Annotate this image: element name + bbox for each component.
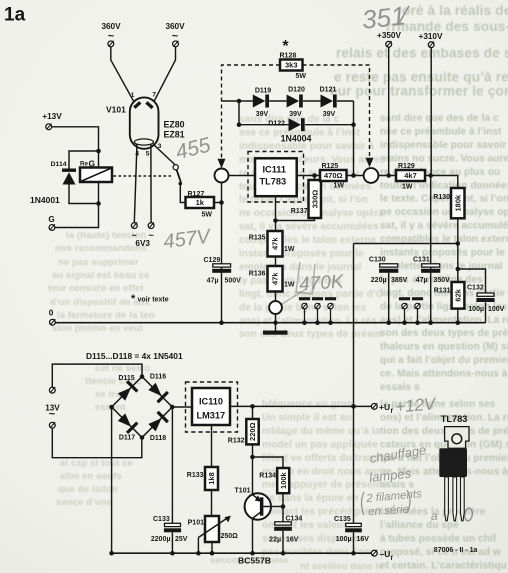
diode D118 (147, 411, 169, 442)
wire D122 row (239, 122, 356, 127)
node A regulator input (215, 169, 229, 183)
svg-text:D118: D118 (150, 435, 166, 442)
diode D117 (116, 412, 138, 441)
svg-text:100µ: 100µ (468, 306, 484, 313)
svg-text:G: G (48, 215, 54, 224)
svg-text:IC110: IC110 (199, 397, 223, 407)
wire IC110 output +Uf line (230, 404, 371, 409)
svg-text:e reste pas ensuite qu’à recof: e reste pas ensuite qu’à recoffre digne (334, 70, 508, 85)
svg-text:5W: 5W (202, 212, 213, 219)
svg-text:1: 1 (131, 92, 135, 99)
terminal +Uf (371, 402, 393, 415)
svg-text:ne occasion un analyse opéra: ne occasion un analyse opéra (380, 207, 508, 218)
divider resistor R135 47k 1W (249, 231, 295, 257)
svg-text:C133: C133 (153, 516, 170, 523)
svg-text:22µ: 22µ (269, 537, 281, 544)
svg-text:qui a fait l’objet du premier: qui a fait l’objet du premier (380, 355, 508, 366)
heater tap terminal 2 (312, 297, 323, 325)
wire bridge plus down to C133 (171, 407, 173, 523)
wire P101 bottom to rail (210, 542, 215, 556)
wire tube pin 5 to heater terminal (150, 145, 152, 223)
label 1N4001 (30, 195, 60, 205)
svg-text:thaleurs en question (M) si: thaleurs en question (M) si (380, 342, 508, 353)
svg-text:7: 7 (152, 91, 156, 98)
node B regulator output (364, 168, 379, 183)
svg-text:nos recommandons: nos recommandons (55, 243, 147, 254)
wire R137 bottom to divider (273, 218, 314, 223)
wire R137 top pin (314, 176, 316, 181)
op-amp/regulator IC111 TL783 (248, 152, 304, 203)
svg-text:100k: 100k (279, 471, 288, 489)
svg-text:D115: D115 (118, 375, 134, 382)
tube V101 EZ80/EZ81 rectifier (106, 91, 185, 157)
svg-text:250Ω: 250Ω (221, 533, 239, 540)
resistor R137 330ohm (291, 180, 321, 218)
svg-text:47k: 47k (271, 237, 280, 250)
svg-text:P101: P101 (188, 520, 204, 527)
capacitor C132 100u 100V (467, 285, 505, 314)
figure label 1a (4, 5, 26, 26)
svg-text:indispensable pour savoir à: indispensable pour savoir à (380, 140, 508, 151)
svg-text:R131: R131 (434, 288, 451, 295)
wire tube pin 4 to heater terminal (134, 145, 137, 223)
wire IC111 output to R125 (297, 173, 320, 178)
wire node C to 0 bus (273, 314, 278, 325)
svg-text:tre dans la épure en: tre dans la épure en (262, 493, 358, 504)
terminal 360V right (165, 22, 185, 47)
svg-text:al cap si tout ce: al cap si tout ce (60, 458, 133, 469)
svg-text:son des deux types de préam: son des deux types de préam (239, 329, 382, 340)
wire output node to R129 (378, 173, 396, 178)
svg-text:D119: D119 (255, 88, 271, 95)
terminal -Uf (371, 549, 393, 562)
resistor R127 1k 5W (186, 191, 215, 219)
svg-text:R132: R132 (228, 438, 245, 445)
wire C133 to rail (170, 532, 175, 555)
svg-text:R133: R133 (187, 472, 204, 479)
svg-text:IC111: IC111 (263, 165, 287, 175)
-Uf rail (110, 552, 371, 554)
svg-text:330Ω: 330Ω (310, 190, 319, 209)
capacitor C131 47u 350V (413, 256, 450, 284)
heater tap terminal 3 (325, 297, 336, 325)
ground symbol under node C (263, 323, 288, 335)
svg-text:Un simple il est au: Un simple il est au (262, 412, 352, 423)
svg-text:BC557B: BC557B (238, 556, 271, 566)
svg-text:C135: C135 (334, 516, 351, 523)
svg-text:instants proposés pour le: instants proposés pour le (380, 248, 505, 259)
svg-text:D117: D117 (119, 434, 135, 441)
wire R136 to node C (275, 292, 277, 302)
wire to diode D114 branch (69, 151, 99, 169)
svg-text:500V: 500V (225, 278, 242, 285)
resistor R131 62k (434, 282, 465, 309)
svg-text:sance d’une: sance d’une (56, 497, 112, 508)
wire input node down to 0 bus (through C129) (219, 183, 224, 326)
wire left drop to D122 row (237, 99, 242, 127)
svg-text:model un pas appliquée: model un pas appliquée (262, 439, 378, 450)
terminal +13V (42, 112, 62, 130)
heater tap terminal 5 (412, 297, 423, 325)
svg-text:16V: 16V (357, 536, 370, 543)
capacitor C130 220u 385V (369, 256, 408, 284)
0 volt bus (55, 322, 485, 324)
wire R127 to input node (214, 200, 224, 205)
svg-text:1k: 1k (196, 198, 205, 207)
svg-text:1N4001: 1N4001 (30, 195, 60, 205)
label BC557B (238, 556, 271, 566)
svg-text:C131: C131 (413, 256, 430, 263)
svg-text:+310V: +310V (419, 32, 443, 41)
node C divider tap (269, 301, 282, 314)
wire R135 to R136 (275, 257, 277, 267)
svg-text:R137: R137 (291, 208, 308, 215)
wire R131 bottom to 0 bus (456, 309, 461, 325)
wire R133 to P101 (211, 490, 213, 516)
svg-text:R134: R134 (259, 473, 276, 480)
svg-text:62k: 62k (454, 288, 463, 301)
terminal 13V bottom (49, 422, 55, 428)
diode D114 1N4001 flyback (51, 161, 76, 185)
svg-text:et certain. L’caractéristiqu: et certain. L’caractéristiqu (380, 560, 507, 571)
wire IC111 adj pin down (275, 196, 277, 231)
terminal heater 6V3 left (131, 222, 137, 240)
svg-text:nt aveilleu dans le: nt aveilleu dans le (300, 561, 384, 572)
svg-text:teur censuré en effet: teur censuré en effet (48, 283, 144, 294)
svg-text:350V: 350V (434, 277, 451, 284)
svg-text:TL783: TL783 (441, 414, 468, 424)
dashed connection R128 to output node (303, 65, 374, 167)
terminal +350V (377, 31, 401, 47)
svg-text:100µ: 100µ (336, 536, 352, 543)
regulator IC110 LM317 (186, 382, 238, 432)
resistor R130 180k (433, 188, 464, 218)
svg-text:sant dire que des de la c: sant dire que des de la c (380, 113, 499, 124)
heater tap terminal 4 (399, 297, 410, 325)
svg-text:R130: R130 (433, 194, 450, 201)
wire +13V to relay coil (52, 127, 101, 168)
zener D119 39V (253, 88, 271, 118)
diode D116 (147, 373, 169, 403)
wire C130 to bus (386, 273, 391, 325)
svg-text:47µ: 47µ (207, 278, 219, 285)
svg-text:D115...D118 = 4x 1N5401: D115...D118 = 4x 1N5401 (86, 351, 183, 361)
heater tap terminal 1 (299, 297, 310, 325)
svg-text:sat, il y a sévère accumulées: sat, il y a sévère accumulées (239, 222, 379, 233)
wire feedback node to heater rail riser (354, 243, 458, 245)
svg-text:87006 - II - 1a: 87006 - II - 1a (434, 547, 478, 554)
svg-text:220µ: 220µ (371, 277, 387, 284)
capacitor C129 47u 500V (204, 257, 242, 285)
svg-text:D114: D114 (51, 161, 67, 168)
resistor R132 220ohm (228, 419, 259, 445)
resistor R128 3k3 5W (optional, dashed) (280, 38, 307, 80)
svg-text:100V: 100V (488, 306, 505, 313)
svg-text:16V: 16V (286, 537, 299, 544)
wire R134 bottom to base junction (281, 493, 286, 509)
zener D120 39V (287, 87, 305, 118)
wire R129 to R130 (425, 173, 458, 188)
svg-text:1k8: 1k8 (207, 472, 216, 485)
svg-text:l’alliance du spé: l’alliance du spé (380, 520, 459, 531)
terminal 13V top (49, 387, 55, 393)
svg-text:385V: 385V (391, 277, 408, 284)
svg-text:essais s: essais s (380, 382, 420, 393)
svg-text:emplettes dans le journal: emplettes dans le journal (380, 261, 503, 272)
svg-text:V101: V101 (106, 105, 126, 115)
svg-text:TL783: TL783 (260, 177, 287, 187)
svg-text:180k: 180k (453, 194, 462, 212)
relay coil Re G (80, 159, 112, 183)
svg-text:sat, il y a sévère accumulées: sat, il y a sévère accumulées (380, 221, 508, 232)
svg-text:47µ: 47µ (416, 277, 428, 284)
svg-text:351: 351 (361, 0, 407, 34)
svg-text:ans) et l’alimentation. La réa: ans) et l’alimentation. La réa (239, 316, 377, 327)
bridge rectifier frame (109, 374, 174, 440)
label 87006-II-1a (434, 547, 478, 554)
wire D114 back to coil bottom (69, 185, 101, 206)
svg-text:d’un dispositif de aux: d’un dispositif de aux (50, 297, 150, 308)
svg-text:3k3: 3k3 (285, 61, 298, 70)
svg-text:hféquence en gros: hféquence en gros (262, 399, 353, 410)
wire IC110 adj down to R133 (211, 425, 213, 467)
svg-text:1W: 1W (334, 183, 345, 190)
dashed connection R128 to input node (218, 65, 281, 168)
svg-text:470K: 470K (299, 271, 346, 295)
svg-text:ans) et l’alimentation. La réa: ans) et l’alimentation. La réa (380, 315, 508, 326)
svg-text:EZ80: EZ80 (164, 120, 185, 130)
svg-text:5W: 5W (296, 73, 307, 80)
wire zener string right end down to output line (353, 101, 355, 176)
wire R132 bottom to T101 emitter junction (250, 444, 255, 459)
svg-text:née ce préambule à l’inst: née ce préambule à l’inst (380, 126, 502, 137)
label D115...D118 (86, 351, 183, 361)
svg-text:C129: C129 (204, 257, 221, 264)
svg-text:39V: 39V (323, 111, 336, 118)
svg-text:a: a (431, 509, 438, 523)
divider resistor R136 47k 1W (249, 266, 295, 292)
svg-text:1N4004: 1N4004 (281, 134, 312, 144)
svg-text:R136: R136 (249, 271, 266, 278)
wire T101 emitter up (252, 457, 254, 496)
svg-text:39V: 39V (256, 111, 269, 118)
svg-text:0: 0 (49, 309, 54, 318)
wire R130 bottom to feedback node (456, 218, 461, 282)
capacitor C133 2200u 25V (151, 516, 188, 543)
capacitor C134 22u 16V (269, 507, 302, 544)
wire T101 base to R134/C134 (263, 506, 283, 508)
wire +350V down to output line (388, 47, 390, 175)
zener D121 39V (320, 87, 337, 118)
svg-text:470Ω: 470Ω (324, 171, 343, 180)
svg-text:–U: –U (380, 549, 391, 559)
svg-text:220Ω: 220Ω (248, 422, 257, 441)
wire +310V down through line to C131 (428, 48, 433, 325)
wire C134 to rail (281, 531, 286, 556)
svg-text:+U: +U (379, 402, 390, 412)
svg-text:2200µ: 2200µ (151, 536, 171, 543)
terminal heater 6V3 right (148, 222, 154, 240)
wire 360V left to tube plate pin 1 (111, 47, 134, 103)
wire node to C132 (458, 269, 486, 293)
svg-text:ne pas supprimer: ne pas supprimer (58, 257, 139, 268)
svg-text:la fermeture de la ten: la fermeture de la ten (57, 310, 155, 321)
svg-text:ce. Mais attendons-nous à: ce. Mais attendons-nous à (380, 369, 508, 380)
transistor T101 BC557B (235, 488, 271, 520)
label 13V (45, 403, 60, 420)
TL783 package drawing (439, 414, 469, 521)
wire 13V top to bridge top corner (52, 364, 142, 387)
wire R132 top (252, 406, 254, 419)
svg-text:alim en oeufs: alim en oeufs (60, 471, 122, 482)
wire C135 to rail (351, 532, 356, 555)
wire P101 wiper to rail (196, 538, 201, 556)
svg-text:C130: C130 (369, 256, 386, 263)
svg-text:+350V: +350V (377, 31, 401, 40)
terminal +310V (419, 32, 443, 48)
svg-text:+13V: +13V (42, 112, 62, 121)
svg-text:EZ81: EZ81 (164, 129, 185, 139)
svg-text:LM317: LM317 (197, 411, 226, 421)
wire T101 collector to rail (250, 518, 255, 556)
diode D122 1N4004 (268, 118, 311, 143)
capacitor C135 100u 16V (334, 516, 369, 543)
svg-text:relais et des embases de sorti: relais et des embases de sortie pa (336, 46, 508, 61)
resistor R125 470ohm 1W (320, 163, 347, 190)
wire junction to R134 (253, 457, 284, 468)
svg-text:au signal est beau ce: au signal est beau ce (52, 270, 150, 281)
svg-text:*: * (131, 293, 136, 305)
svg-text:son des deux types de préam: son des deux types de préam (380, 328, 508, 339)
resistor R129 4k7 1W (396, 163, 425, 191)
svg-text:C132: C132 (467, 285, 484, 292)
note voir texte (131, 293, 169, 305)
terminal 0 (49, 309, 56, 326)
decorative pencil annotations (handwriting) (162, 0, 473, 523)
terminal 360V left (101, 22, 121, 47)
wire 360V right to tube plate pin 7 (154, 47, 176, 102)
svg-text:47k: 47k (271, 272, 280, 285)
wire C132 bottom to 0 bus (485, 302, 487, 322)
svg-text:1W: 1W (284, 282, 295, 289)
wire zener string row (222, 100, 354, 102)
svg-text:1a: 1a (4, 5, 26, 26)
label 6V3 (135, 239, 150, 248)
wire input node to IC111 (229, 175, 256, 177)
wire switch to R127 (180, 185, 185, 203)
potentiometer P101 250ohm (188, 516, 239, 542)
svg-text:D116: D116 (150, 373, 166, 380)
heater elevation riser wire (351, 244, 356, 524)
svg-text:D121: D121 (320, 87, 337, 94)
svg-text:~: ~ (49, 409, 56, 421)
dashed mechanical link relay to switch (114, 175, 172, 177)
svg-text:D120: D120 (288, 87, 305, 94)
svg-text:oré à la réalis de ce décrit: oré à la réalis de ce décrit (402, 3, 508, 18)
svg-text:instants proposés pour le: instants proposés pour le (239, 249, 364, 260)
wire R125 to output node (347, 173, 364, 178)
svg-text:4k7: 4k7 (404, 171, 417, 180)
svg-text:que de laiton: que de laiton (58, 484, 118, 495)
svg-text:T101: T101 (235, 488, 251, 495)
svg-text:39V: 39V (289, 111, 302, 118)
diode D115 (116, 375, 138, 402)
wire bridge plus to IC110 input (172, 406, 192, 408)
wire bridge minus down to -Uf rail (109, 407, 114, 556)
svg-text:eur pour transformer le çon ob: eur pour transformer le çon objet d’un (330, 84, 508, 99)
svg-text:voir texte: voir texte (138, 297, 169, 304)
svg-text:à tubes possède un chif: à tubes possède un chif (380, 534, 497, 545)
resistor R133 1k8 (187, 467, 218, 490)
wire tube pin 3 to relay switch (153, 144, 175, 165)
svg-text:1W: 1W (402, 184, 413, 191)
svg-text:6V3: 6V3 (135, 239, 150, 248)
svg-text:25V: 25V (175, 536, 188, 543)
svg-text:sion (mémo en veut: sion (mémo en veut (52, 323, 144, 334)
terminal G (48, 215, 55, 230)
svg-text:R135: R135 (249, 235, 266, 242)
svg-text:5: 5 (146, 151, 150, 158)
svg-text:1W: 1W (284, 246, 295, 253)
resistor R134 100k (259, 468, 289, 493)
wire 13V bottom to bridge bottom corner (52, 428, 142, 458)
relay switch contact (173, 165, 182, 186)
wire coil to terminal G (55, 182, 99, 228)
svg-text:mblage du même qu’à la: mblage du même qu’à la (262, 426, 381, 437)
svg-text:+12V: +12V (394, 394, 437, 417)
